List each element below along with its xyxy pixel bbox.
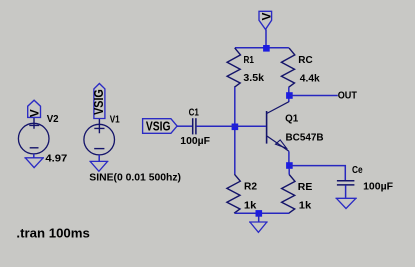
wire: V flag stem to top rail xyxy=(265,29,267,48)
wire: RE top lead xyxy=(288,169,290,175)
svg-text:100µF: 100µF xyxy=(180,135,210,147)
label C1 xyxy=(189,106,199,118)
node junction base xyxy=(232,124,239,131)
svg-text:100µF: 100µF xyxy=(363,180,393,192)
capacitor C1 xyxy=(193,118,196,134)
resistor R2 xyxy=(227,174,240,213)
node junction collector xyxy=(286,92,293,99)
wire: top rail xyxy=(235,47,289,49)
wire: VSIG flag to C1 xyxy=(177,125,192,127)
label RE xyxy=(298,181,313,193)
net flag VSIG (V1) xyxy=(92,84,106,119)
svg-text:V2: V2 xyxy=(47,113,59,125)
ground (V1) xyxy=(89,161,108,171)
svg-text:.tran 100ms: .tran 100ms xyxy=(16,226,89,241)
transistor Q1 xyxy=(267,102,289,152)
node junction on top rail xyxy=(263,45,270,52)
svg-text:SINE(0 0.01 500hz): SINE(0 0.01 500hz) xyxy=(89,171,181,183)
value 100µF (C1) xyxy=(180,135,210,147)
value 4.4k xyxy=(300,72,320,84)
label Q1 xyxy=(285,113,298,125)
svg-text:1k: 1k xyxy=(244,200,257,212)
label R1 xyxy=(244,54,255,66)
label RC xyxy=(298,54,313,66)
svg-text:3.5k: 3.5k xyxy=(243,72,264,84)
value 1k (RE) xyxy=(299,200,312,212)
svg-text:RE: RE xyxy=(298,181,313,193)
svg-text:V: V xyxy=(259,12,273,20)
ground (bottom rail) xyxy=(249,222,268,232)
wire: bottom rail xyxy=(235,212,289,214)
svg-text:BC547B: BC547B xyxy=(286,132,324,144)
wire: emitter to Ce xyxy=(289,166,345,181)
wire: base node vertical (R1 bottom to R2 top) xyxy=(234,87,236,174)
value 100µF (Ce) xyxy=(363,180,393,192)
svg-text:4.97: 4.97 xyxy=(45,152,67,164)
label Ce xyxy=(352,164,363,176)
svg-text:Ce: Ce xyxy=(352,164,363,176)
svg-text:RC: RC xyxy=(298,54,313,66)
wire: Ce bottom lead xyxy=(345,185,347,198)
label R2 xyxy=(244,181,257,193)
voltage source V2 xyxy=(18,118,49,154)
resistor R1 xyxy=(227,48,240,87)
wire: V1 to ground xyxy=(98,155,100,162)
wire: junction to transistor base xyxy=(235,125,266,127)
svg-text:C1: C1 xyxy=(189,106,199,118)
directive .tran xyxy=(16,226,89,241)
resistor RE xyxy=(282,175,295,214)
svg-text:OUT: OUT xyxy=(338,90,358,102)
svg-text:R1: R1 xyxy=(244,54,255,66)
svg-text:V1: V1 xyxy=(110,113,120,125)
ground (Ce) xyxy=(336,198,357,208)
value 4.97 xyxy=(45,152,67,164)
wire: RC bottom to collector node xyxy=(288,87,290,102)
svg-text:R2: R2 xyxy=(244,181,257,193)
label OUT xyxy=(338,90,358,102)
svg-text:Q1: Q1 xyxy=(285,113,298,125)
wire: C1 to base junction xyxy=(197,125,235,127)
net flag V (V2) xyxy=(28,100,42,117)
svg-text:1k: 1k xyxy=(299,200,312,212)
label V1 xyxy=(110,113,120,125)
value 3.5k xyxy=(243,72,264,84)
value 1k (R2) xyxy=(244,200,257,212)
wire: OUT xyxy=(289,95,337,97)
value SINE xyxy=(89,171,181,183)
wire: stem to ground xyxy=(258,213,260,222)
svg-text:VSIG: VSIG xyxy=(92,89,106,115)
node junction emitter xyxy=(286,162,293,169)
wire: V2 to ground xyxy=(33,154,35,158)
resistor RC xyxy=(281,48,294,87)
svg-text:VSIG: VSIG xyxy=(146,119,171,133)
wire: emitter lead down xyxy=(288,151,290,169)
label V2 xyxy=(47,113,59,125)
net flag VSIG (at C1) xyxy=(143,119,178,134)
svg-text:4.4k: 4.4k xyxy=(300,72,320,84)
voltage source V1 xyxy=(84,119,115,155)
value BC547B xyxy=(286,132,324,144)
svg-text:V: V xyxy=(28,109,42,117)
net flag V (supply) xyxy=(259,11,273,29)
ground (V2) xyxy=(24,158,44,168)
capacitor Ce xyxy=(337,181,355,185)
node junction ground rail xyxy=(256,210,263,217)
